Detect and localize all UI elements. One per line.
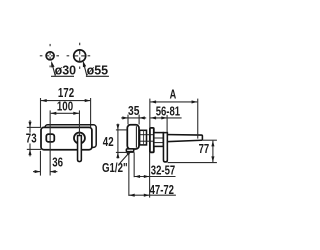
centerline vertical hole 1 [49, 44, 51, 67]
leader ø55 [83, 61, 109, 77]
dim 32-57 [134, 176, 175, 178]
dim 42 ext lines [116, 129, 127, 131]
dim 172 [41, 100, 90, 102]
dim 172 extension lines [40, 98, 42, 127]
dim 77 ext lines [203, 139, 217, 141]
neck [140, 130, 147, 145]
dim 47-72 [129, 194, 176, 196]
dim A ext lines [149, 99, 151, 129]
dim 35 ext lines [127, 115, 129, 125]
dim 56-81 [150, 117, 181, 119]
centerline horizontal through hole circles [40, 55, 90, 57]
svg-text:172: 172 [58, 86, 74, 100]
centerline vertical hole 2 [79, 43, 81, 69]
dim 100 ext line left (through spout outlet) [49, 110, 51, 175]
svg-text:35: 35 [128, 104, 139, 118]
G1/2 leader [120, 151, 131, 163]
svg-text:36: 36 [52, 155, 63, 169]
dim 100 ext line right (to handle center) [78, 110, 80, 138]
handle lever (front) [78, 136, 82, 162]
handle block inner line [135, 126, 137, 148]
dim 73 extension lines [27, 126, 41, 128]
center cross hole 2 [74, 50, 85, 61]
svg-text:32-57: 32-57 [151, 164, 175, 178]
handle block [127, 125, 139, 149]
lever (side) [163, 133, 167, 162]
svg-text:G1/2": G1/2" [102, 161, 128, 175]
spout [163, 135, 202, 142]
dim 42 [117, 124, 119, 159]
dim A [150, 101, 197, 103]
svg-text:47-72: 47-72 [150, 183, 174, 197]
svg-text:56-81: 56-81 [156, 105, 180, 119]
center cross hole 1 [46, 52, 54, 59]
wall plate [41, 127, 92, 149]
svg-text:ø55: ø55 [87, 63, 109, 77]
dim 77 [212, 141, 214, 163]
dim 73 [29, 120, 31, 156]
spout base [154, 133, 164, 147]
dim 36 ext line [39, 151, 41, 176]
svg-text:A: A [170, 88, 177, 102]
dim 100 [51, 112, 79, 114]
wall plate shadow edge [45, 125, 96, 148]
dim 47-72 ext line [128, 152, 130, 196]
wall plate (side) [150, 128, 154, 152]
leader ø30 [51, 61, 74, 76]
svg-text:73: 73 [26, 132, 37, 146]
dim 32-57 ext lines [133, 152, 135, 177]
svg-text:42: 42 [103, 135, 114, 149]
hole circle ø30 [46, 52, 54, 60]
spout outlet square [46, 134, 54, 142]
svg-text:77: 77 [199, 142, 210, 156]
svg-text:ø30: ø30 [55, 63, 77, 77]
handle escutcheon circle [74, 133, 85, 144]
dim 36 [33, 171, 40, 173]
hole circle ø55 [74, 50, 86, 62]
dim 35 [121, 117, 146, 119]
svg-text:100: 100 [57, 99, 73, 113]
block foot [126, 149, 133, 152]
